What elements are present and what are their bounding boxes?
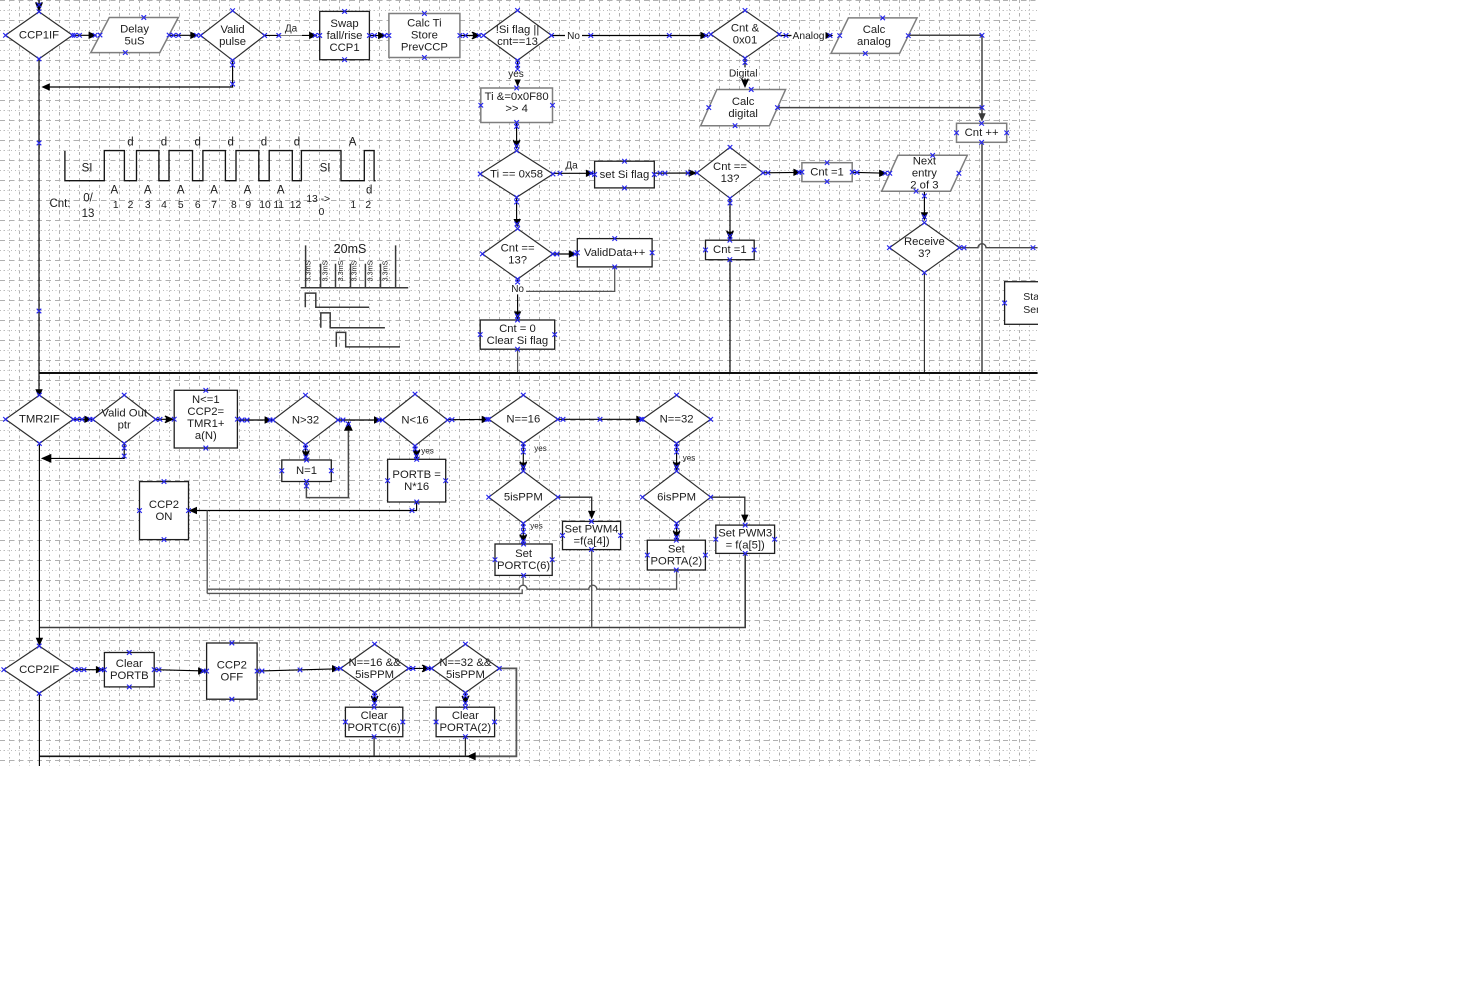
svg-text:5uS: 5uS	[124, 35, 145, 47]
svg-text:PORTA(2): PORTA(2)	[440, 722, 492, 734]
svg-text:5: 5	[178, 200, 184, 211]
svg-text:cnt==13: cnt==13	[497, 36, 538, 48]
svg-text:Receive: Receive	[904, 236, 945, 248]
svg-text:SI: SI	[82, 162, 93, 174]
svg-text:a(N): a(N)	[195, 430, 217, 442]
svg-text:N=1: N=1	[296, 465, 317, 477]
svg-text:N<=1: N<=1	[192, 394, 220, 406]
svg-text:8: 8	[231, 200, 237, 211]
svg-text:yes: yes	[683, 453, 695, 462]
svg-text:20mS: 20mS	[334, 242, 367, 256]
svg-text:Calc: Calc	[863, 24, 886, 36]
svg-text:Cnt:: Cnt:	[49, 198, 70, 210]
svg-text:3.3mS: 3.3mS	[365, 260, 374, 281]
svg-text:CCP2=: CCP2=	[187, 406, 224, 418]
svg-text:OFF: OFF	[221, 671, 244, 683]
svg-text:9: 9	[245, 200, 251, 211]
svg-text:3.3mS: 3.3mS	[380, 260, 389, 281]
svg-text:3?: 3?	[918, 248, 931, 260]
svg-text:A: A	[110, 184, 118, 196]
svg-text:A: A	[349, 137, 357, 149]
svg-text:3.3mS: 3.3mS	[350, 260, 359, 281]
svg-text:A: A	[244, 184, 252, 196]
svg-text:13 ->: 13 ->	[306, 194, 330, 205]
svg-text:Cnt ==: Cnt ==	[713, 161, 747, 173]
svg-text:yes: yes	[530, 521, 542, 530]
svg-text:ON: ON	[156, 511, 173, 523]
svg-text:Analog: Analog	[792, 31, 824, 42]
svg-text:d: d	[294, 137, 300, 149]
svg-text:Cnt = 0: Cnt = 0	[499, 323, 536, 335]
svg-text:Send: Send	[1023, 304, 1048, 316]
svg-text:TMR2IF: TMR2IF	[19, 414, 60, 426]
svg-text:N==32 &&: N==32 &&	[439, 657, 492, 669]
svg-text:Start: Start	[1023, 291, 1045, 303]
svg-text:Set PWM3: Set PWM3	[718, 527, 772, 539]
svg-text:CCP2: CCP2	[149, 499, 179, 511]
svg-text:Next: Next	[913, 156, 937, 168]
svg-text:PORTA(2): PORTA(2)	[651, 555, 703, 567]
svg-text:!Si flag ||: !Si flag ||	[496, 24, 540, 36]
svg-text:No: No	[567, 31, 580, 42]
svg-text:Set PWM4: Set PWM4	[565, 524, 619, 536]
svg-text:2: 2	[128, 200, 134, 211]
svg-text:entry: entry	[912, 168, 937, 180]
svg-text:Valid: Valid	[220, 24, 244, 36]
svg-text:3.3mS: 3.3mS	[321, 260, 330, 281]
svg-text:CCP2IF: CCP2IF	[19, 664, 59, 676]
svg-text:PrevCCP: PrevCCP	[401, 42, 448, 54]
svg-text:A: A	[277, 184, 285, 196]
svg-text:Cnt =1: Cnt =1	[713, 244, 747, 256]
svg-text:digital: digital	[728, 108, 758, 120]
svg-text:Store: Store	[411, 30, 438, 42]
svg-text:N==32: N==32	[660, 414, 694, 426]
svg-text:TMR1+: TMR1+	[187, 418, 225, 430]
svg-text:PORTB =: PORTB =	[392, 469, 441, 481]
svg-text:3: 3	[145, 200, 151, 211]
svg-text:6: 6	[195, 200, 201, 211]
svg-text:PORTC(6): PORTC(6)	[348, 722, 401, 734]
svg-text:Clear: Clear	[116, 658, 143, 670]
svg-text:=f(a[4]): =f(a[4])	[573, 536, 609, 548]
svg-text:13?: 13?	[508, 254, 527, 266]
svg-text:Cnt &: Cnt &	[731, 23, 760, 35]
svg-text:d: d	[366, 184, 372, 196]
svg-text:analog: analog	[857, 36, 891, 48]
svg-text:10: 10	[259, 200, 271, 211]
svg-text:A: A	[144, 184, 152, 196]
svg-text:4: 4	[161, 200, 167, 211]
svg-text:Да: Да	[285, 24, 298, 35]
svg-text:Clear: Clear	[452, 710, 479, 722]
svg-text:N>32: N>32	[292, 414, 319, 426]
svg-text:N==16: N==16	[506, 414, 540, 426]
svg-text:PORTB: PORTB	[110, 670, 149, 682]
svg-text:Set: Set	[515, 548, 533, 560]
svg-text:1: 1	[350, 200, 356, 211]
svg-text:d: d	[127, 137, 133, 149]
svg-text:7: 7	[211, 200, 217, 211]
svg-text:Ti == 0x58: Ti == 0x58	[490, 168, 543, 180]
svg-text:pulse: pulse	[219, 36, 246, 48]
svg-text:ValidData++: ValidData++	[584, 247, 646, 259]
svg-text:3.3mS: 3.3mS	[336, 260, 345, 281]
svg-text:Valid Out: Valid Out	[101, 408, 147, 420]
svg-text:Cnt ++: Cnt ++	[965, 127, 999, 139]
svg-text:CCP1: CCP1	[329, 42, 359, 54]
svg-text:d: d	[194, 137, 200, 149]
svg-text:>> 4: >> 4	[505, 103, 528, 115]
svg-text:Digital: Digital	[729, 69, 758, 80]
svg-text:N<16: N<16	[401, 414, 428, 426]
svg-text:Swap: Swap	[330, 18, 358, 30]
svg-text:Calc Ti: Calc Ti	[407, 18, 442, 30]
svg-text:0: 0	[319, 207, 325, 218]
svg-text:d: d	[227, 137, 233, 149]
svg-text:yes: yes	[534, 444, 546, 453]
svg-text:2: 2	[365, 200, 371, 211]
svg-text:d: d	[161, 137, 167, 149]
svg-text:set Si flag: set Si flag	[600, 169, 650, 181]
svg-text:Да: Да	[565, 161, 578, 172]
svg-text:12: 12	[290, 200, 302, 211]
svg-text:fall/rise: fall/rise	[327, 30, 363, 42]
svg-text:A: A	[210, 184, 218, 196]
svg-text:Calc: Calc	[732, 96, 755, 108]
svg-text:Ti &=0x0F80: Ti &=0x0F80	[485, 91, 549, 103]
svg-text:N==16 &&: N==16 &&	[349, 657, 402, 669]
svg-text:PORTC(6): PORTC(6)	[497, 560, 550, 572]
svg-text:ptr: ptr	[118, 420, 131, 432]
svg-text:A: A	[177, 184, 185, 196]
svg-text:yes: yes	[421, 447, 433, 456]
svg-text:Delay: Delay	[120, 23, 149, 35]
svg-text:CCP1IF: CCP1IF	[19, 30, 59, 42]
svg-text:13?: 13?	[721, 173, 740, 185]
svg-text:5isPPM: 5isPPM	[446, 669, 485, 681]
svg-text:Clear Si flag: Clear Si flag	[487, 335, 549, 347]
svg-text:1: 1	[113, 200, 119, 211]
svg-text:13: 13	[82, 208, 95, 220]
svg-text:N*16: N*16	[404, 481, 429, 493]
svg-text:6isPPM: 6isPPM	[657, 492, 696, 504]
svg-text:0/: 0/	[83, 193, 93, 205]
svg-text:= f(a[5]): = f(a[5])	[726, 539, 765, 551]
svg-text:SI: SI	[320, 162, 331, 174]
svg-text:5isPPM: 5isPPM	[504, 492, 543, 504]
svg-text:CCP2: CCP2	[217, 659, 247, 671]
svg-text:Clear: Clear	[361, 710, 388, 722]
svg-text:No: No	[511, 284, 524, 295]
svg-text:d: d	[261, 137, 267, 149]
svg-text:Set: Set	[668, 543, 686, 555]
svg-text:0x01: 0x01	[733, 35, 758, 47]
svg-text:Cnt ==: Cnt ==	[501, 242, 535, 254]
svg-text:3.3mS: 3.3mS	[304, 260, 313, 281]
svg-text:5isPPM: 5isPPM	[355, 669, 394, 681]
svg-text:Cnt =1: Cnt =1	[810, 166, 844, 178]
svg-text:11: 11	[273, 200, 284, 211]
